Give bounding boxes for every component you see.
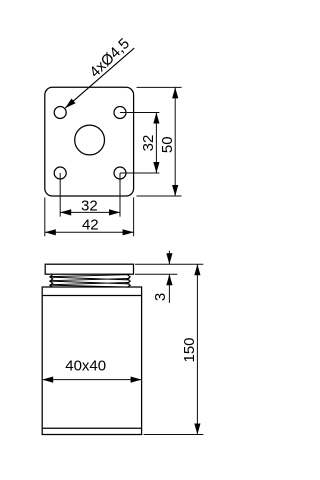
central hole [75,125,105,155]
corner hole bottom-right [114,167,126,179]
arrow 3 lower (pointing up) [166,274,172,285]
extension line plate-top right (3 and 150) [135,263,203,265]
arrow 32-vert bottom [153,162,159,173]
corner hole top-left [54,107,66,119]
body inner line top [42,295,141,297]
extension line below plate right corner [133,198,135,237]
label 50 vertical [159,136,176,153]
arrow 32-bottom left [60,209,71,215]
svg-text:40x40: 40x40 [65,358,106,375]
arrow 150 top [194,264,200,275]
extension line from bottom-right hole [120,172,159,174]
label 3 [152,293,169,301]
svg-text:150: 150 [181,337,198,362]
arrow 3 upper (pointing down) [166,253,172,264]
svg-text:4xØ4,5: 4xØ4,5 [86,35,133,81]
arrow 40x40 right [131,377,142,383]
leader line 4xØ4,5 [63,46,136,111]
extension line body-bottom right (150) [144,434,204,436]
svg-text:32: 32 [140,135,157,152]
extension line plate bottom right [137,195,182,197]
arrow 40x40 left [42,377,53,383]
svg-text:3: 3 [152,293,169,301]
svg-text:32: 32 [81,198,98,215]
dimension line 50 vertical [174,87,176,196]
extension line plate top right [137,86,182,88]
dimension line 42 bottom [45,231,134,233]
extension line from top-right hole [120,112,159,114]
spring / thread section right zigzag [127,275,130,287]
dimension line 32 vertical [155,113,157,174]
arrow 32-vert top [153,113,159,124]
corner hole bottom-left [54,167,66,179]
arrow 50 bottom [172,185,178,196]
plate top-view outline [45,87,134,196]
dimension 3 upper tail [168,251,170,265]
svg-text:50: 50 [159,136,176,153]
spring coil lines [51,275,130,287]
dimension line 32 bottom [60,211,120,213]
label 32 vertical [140,135,157,152]
extension line plate-bottom right (3) [135,273,177,275]
dimension line 150 [196,264,198,434]
arrow 42 left [45,229,56,235]
arrow 42 right [123,229,134,235]
leg body outline [42,287,141,435]
spring / thread section left zigzag [50,275,53,287]
dimension line 40x40 [42,379,141,381]
extension line below plate left corner [44,198,46,237]
arrow 150 bottom [194,424,200,435]
mounting plate side view [45,264,133,274]
label 150 [181,337,198,362]
svg-text:42: 42 [82,217,99,234]
corner hole top-right [114,107,126,119]
arrow 32-bottom right [109,209,120,215]
extension line below bottom-left hole [59,173,61,217]
body inner line bottom [42,427,141,429]
extension line below bottom-right hole [119,173,121,217]
dimension 3 lower tail [168,274,170,303]
arrow 50 top [172,87,178,98]
